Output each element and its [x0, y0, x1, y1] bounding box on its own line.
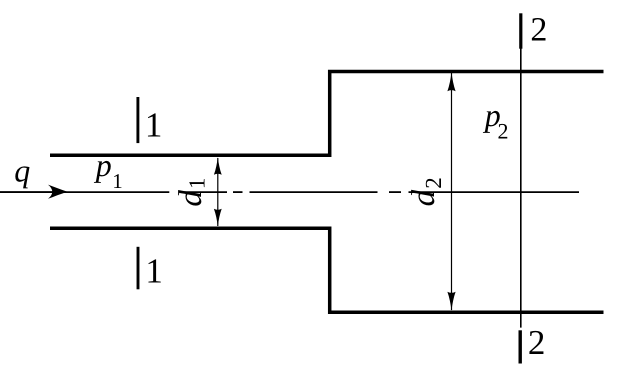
centerline (dash-dot axis) [0, 191, 579, 193]
svg-text:2: 2 [528, 323, 546, 362]
dimension d2 (shaft) [451, 73, 453, 310]
svg-text:d: d [173, 190, 209, 207]
svg-text:1: 1 [145, 252, 163, 291]
label d1 (rotated) [173, 178, 210, 207]
dimension d1 (top arrowhead) [214, 157, 222, 175]
section mark 1 (bottom tick) [137, 247, 140, 289]
svg-text:2: 2 [530, 11, 547, 48]
section line 2 (thin vertical) [520, 47, 522, 328]
svg-text:d: d [406, 189, 442, 206]
dimension d1 (shaft) [217, 158, 219, 226]
pipe wall lower (small pipe bottom, step, large pipe bottom) [50, 228, 604, 312]
svg-text:2: 2 [498, 118, 509, 143]
dimension d1 (bottom arrowhead) [214, 209, 222, 227]
section mark 1 (top tick) [136, 97, 139, 143]
section mark 2 (bottom tick) [519, 330, 522, 363]
dimension d2 (bottom arrowhead) [447, 292, 455, 311]
pipe wall upper (small pipe top, step, large pipe top) [50, 72, 604, 156]
svg-text:2: 2 [421, 177, 446, 189]
svg-text:q: q [14, 153, 30, 189]
label d2 (rotated) [406, 177, 446, 206]
svg-text:1: 1 [145, 106, 163, 145]
flow arrow q (head) [48, 185, 68, 199]
dimension d2 (top arrowhead) [447, 72, 455, 91]
svg-text:1: 1 [112, 169, 123, 193]
section mark 2 (top tick) [519, 13, 522, 48]
svg-text:1: 1 [184, 178, 209, 190]
flow arrow q (shaft) [0, 191, 55, 193]
svg-text:p: p [94, 147, 112, 183]
